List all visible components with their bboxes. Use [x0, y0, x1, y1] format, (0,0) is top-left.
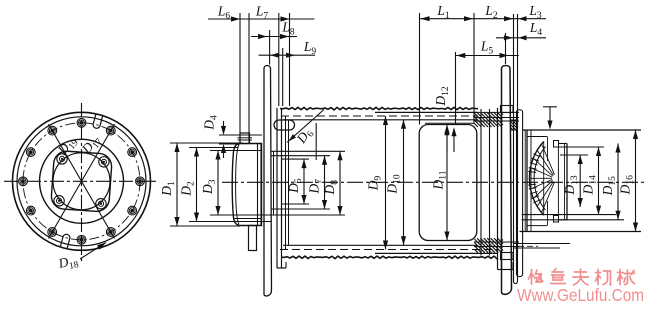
hub top stud dim: [543, 106, 557, 108]
bolt at 330 deg: [128, 206, 137, 215]
drum bottom surface (grooved, wavy): [281, 256, 498, 259]
drum right end walls: [480, 109, 482, 256]
joint bolt lines top: [474, 111, 519, 113]
groove root dashed bottom: [280, 249, 498, 251]
extension line L4 left: [505, 33, 507, 64]
gear hub top edge + D16 top extension: [523, 129, 641, 131]
extension line drum wall top: [278, 13, 280, 106]
top stud: [240, 133, 250, 144]
dimension D16: [635, 130, 637, 232]
outer rim circle: [13, 112, 151, 250]
bolt at 240 deg: [48, 228, 57, 237]
drum/flange joint hatch bottom: [475, 238, 504, 253]
spherical bearing dome: [529, 142, 543, 216]
bolt at 150 deg: [26, 148, 35, 157]
dimension D13: [579, 155, 581, 207]
dimension D1: [176, 143, 178, 226]
gear teeth tip lines: [527, 136, 547, 138]
rim notch at 75 deg: [92, 114, 102, 129]
flange corner hole: [54, 196, 64, 206]
bolt at 300 deg: [106, 228, 115, 237]
dimension line L5: [455, 55, 519, 57]
bolt at 90 deg: [77, 118, 86, 127]
dimension line L6/L7: [208, 18, 314, 20]
left hub body: [232, 144, 261, 226]
D1 extension lines: [170, 142, 243, 144]
dimension D2: [196, 148, 198, 222]
gear hub collar lines: [524, 130, 526, 232]
dome fan lines: [542, 182, 555, 212]
svg-text:Www.GeLufu.Com: Www.GeLufu.Com: [517, 285, 644, 305]
drum top surface (grooved, wavy): [280, 107, 478, 110]
extension line flange right top: [269, 30, 271, 65]
groove root dashed top: [281, 115, 478, 117]
D2 extension lines: [189, 147, 238, 149]
inner rim circle: [17, 117, 146, 246]
support rod B: [517, 110, 523, 277]
right flange plate: [502, 66, 512, 295]
bolt at 120 deg: [48, 126, 57, 135]
bore circle: [53, 153, 110, 210]
center flange rounded square: [51, 150, 113, 212]
extension line x289.5: [289, 13, 291, 106]
bolt at 30 deg: [128, 148, 137, 157]
gear hub left face: [526, 130, 528, 232]
right hub extension lines: [560, 154, 588, 156]
horizontal centerline: [4, 180, 157, 182]
dimension D14: [598, 147, 600, 215]
drum/flange joint hatch top: [475, 113, 504, 128]
flange corner hole: [96, 199, 106, 209]
bolt circle centerline: [23, 123, 140, 240]
bottom stud: [249, 226, 257, 251]
joint bolt lines bottom: [474, 241, 519, 243]
watermark line 1: 格鲁夫机械 (drawn strokes): [529, 270, 544, 285]
side view centerline: [222, 181, 645, 183]
flange boss top: [501, 106, 514, 113]
drum plain shell line bottom: [375, 252, 498, 254]
left view: flange front view: [4, 103, 157, 274]
D19 diameter line: [49, 124, 115, 238]
bolt at 210 deg: [26, 206, 35, 215]
dimension D5: [303, 159, 305, 204]
drum end bottom step left: [276, 257, 278, 268]
D7 extension bottom: [271, 208, 330, 210]
drum left wall: [273, 151, 275, 215]
D3 extension lines: [210, 150, 236, 152]
dimension D15: [617, 144, 619, 220]
dimension D11: [446, 125, 448, 241]
bolt at 270 deg: [77, 235, 86, 244]
drum inner wall top: [283, 119, 477, 121]
extension line x474: [473, 13, 475, 124]
joint ferrule line: [425, 122, 474, 124]
drum plain shell line top: [375, 111, 477, 113]
rope slot: [274, 120, 295, 130]
D7 extension top: [271, 155, 330, 157]
D5 extension bottom: [281, 203, 309, 205]
D6 leader: [287, 110, 324, 143]
extension line L5 left: [455, 52, 457, 124]
D17 diameter line: [49, 124, 115, 238]
gear hub right face: [566, 144, 568, 220]
dimension line L4: [496, 37, 546, 39]
drum cavity: [419, 125, 477, 241]
extension line stud right: [248, 13, 250, 144]
dimension D9: [385, 116, 387, 250]
flange boss bottom: [501, 253, 514, 260]
drum inner wall bottom: [283, 244, 477, 246]
gear hub bottom edge + D16 bottom extension: [520, 231, 642, 233]
bolt at 0 deg: [136, 177, 145, 186]
hub circle: [40, 139, 124, 223]
gear teeth hatch on dome flanks: [533, 154, 540, 157]
hub face lines: [257, 144, 259, 226]
dimension line L1/L2/L3: [420, 18, 547, 20]
left flange plate: [264, 66, 272, 296]
flange corner hole: [57, 154, 67, 164]
bolt at 180 deg: [19, 177, 28, 186]
flange bolt section hatch: [510, 120, 517, 130]
dimension D10: [403, 120, 405, 246]
dimension line L8: [251, 36, 297, 38]
gear hub step lines: [558, 143, 567, 145]
flange corner hole: [99, 157, 109, 167]
D8 extension top: [271, 150, 345, 152]
rim notch at 255 deg: [60, 234, 70, 249]
D5 extension top: [281, 158, 309, 160]
dimension D4: [219, 134, 262, 136]
extension line stud left: [239, 13, 241, 144]
vertical centerline: [81, 103, 83, 262]
extension line x282.7: [282, 48, 284, 106]
extension line cavity left: [419, 13, 421, 125]
bolt at 60 deg: [106, 126, 115, 135]
dimension D3: [217, 151, 219, 216]
dimension line L9: [259, 54, 316, 56]
support rod A: [514, 14, 518, 284]
dimension D8: [339, 151, 341, 215]
drum end bottom step: [497, 257, 499, 269]
dimension D7: [324, 156, 326, 209]
